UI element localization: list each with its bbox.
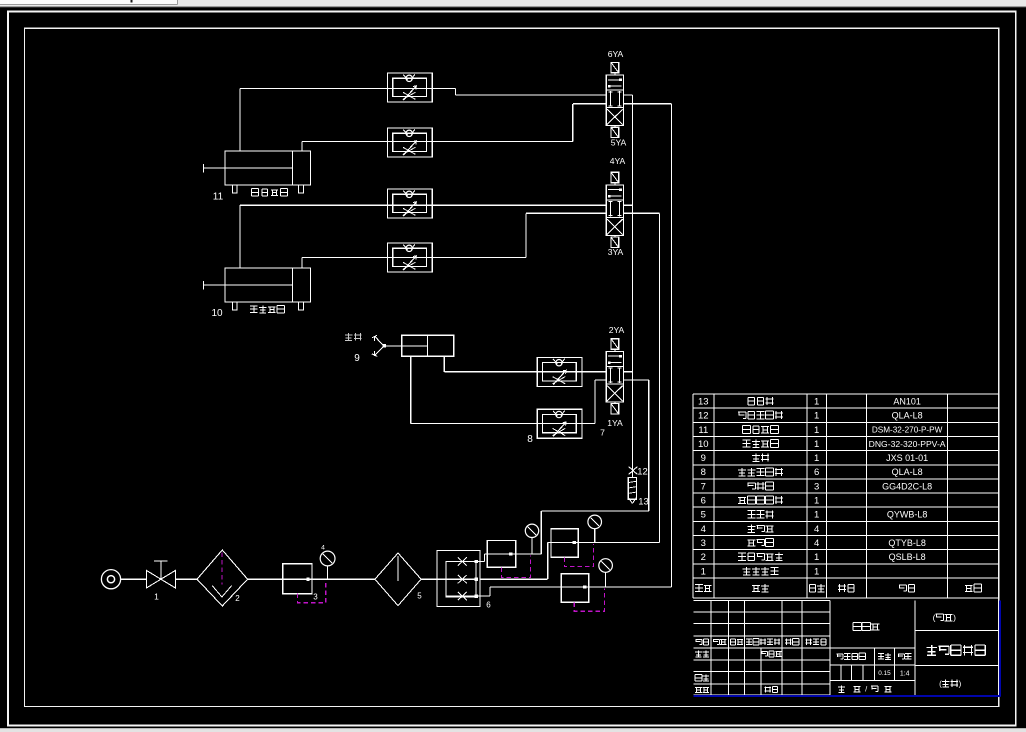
svg-text:1: 1 — [814, 496, 819, 507]
svg-text:8: 8 — [701, 467, 706, 478]
svg-text:6: 6 — [701, 496, 706, 507]
svg-text:5: 5 — [701, 510, 706, 521]
svg-text:QTYB-L8: QTYB-L8 — [888, 538, 926, 548]
svg-text:4: 4 — [701, 524, 706, 535]
svg-text:13: 13 — [698, 396, 709, 407]
svg-text:QLA-L8: QLA-L8 — [892, 467, 923, 477]
svg-text:QSLB-L8: QSLB-L8 — [889, 552, 926, 562]
svg-text:0.15: 0.15 — [878, 670, 891, 677]
svg-text:11: 11 — [213, 192, 224, 203]
svg-text:6YA: 6YA — [608, 49, 624, 59]
svg-text:DSM-32-270-P-PW: DSM-32-270-P-PW — [872, 426, 943, 435]
svg-text:1: 1 — [814, 425, 819, 436]
svg-text:10: 10 — [698, 439, 709, 450]
svg-text:1: 1 — [814, 552, 819, 563]
svg-text:(: ( — [933, 613, 936, 623]
svg-text:3: 3 — [814, 481, 819, 492]
svg-text:8: 8 — [527, 434, 533, 445]
svg-text:1:4: 1:4 — [900, 670, 910, 677]
svg-text:5YA: 5YA — [611, 138, 627, 148]
svg-text:(: ( — [939, 680, 942, 689]
svg-text:4: 4 — [321, 545, 325, 552]
svg-text:10: 10 — [211, 308, 223, 319]
svg-text:3YA: 3YA — [608, 247, 624, 257]
svg-text:1: 1 — [814, 439, 819, 450]
svg-text:2YA: 2YA — [609, 325, 625, 335]
svg-text:3: 3 — [701, 538, 706, 549]
svg-text:4: 4 — [814, 524, 819, 535]
svg-text:GG4D2C-L8: GG4D2C-L8 — [882, 481, 932, 491]
svg-text:1: 1 — [814, 453, 819, 464]
svg-text:6: 6 — [486, 601, 491, 610]
svg-text:1YA: 1YA — [607, 418, 623, 428]
svg-text:): ) — [959, 680, 962, 689]
svg-text:4: 4 — [814, 538, 819, 549]
svg-text:6: 6 — [814, 467, 819, 478]
svg-text:13: 13 — [638, 497, 649, 508]
svg-text:9: 9 — [354, 353, 360, 364]
svg-text:12: 12 — [698, 411, 709, 422]
svg-text:7: 7 — [701, 481, 706, 492]
svg-text:12: 12 — [637, 467, 648, 478]
svg-text:1: 1 — [154, 592, 159, 602]
svg-text:): ) — [953, 613, 956, 623]
svg-text:DNG-32-320-PPV-A: DNG-32-320-PPV-A — [869, 439, 946, 449]
svg-text:4YA: 4YA — [610, 156, 626, 166]
svg-text:11: 11 — [698, 425, 708, 436]
svg-text:1: 1 — [701, 566, 706, 577]
svg-text:2: 2 — [701, 552, 706, 563]
svg-text:9: 9 — [701, 453, 706, 464]
svg-text:7: 7 — [600, 427, 605, 437]
svg-text:1: 1 — [814, 411, 819, 422]
svg-text:2: 2 — [235, 594, 240, 603]
svg-text:JXS 01-01: JXS 01-01 — [886, 453, 928, 463]
svg-text:QYWB-L8: QYWB-L8 — [887, 510, 928, 520]
svg-text:1: 1 — [814, 396, 819, 407]
svg-text:AN101: AN101 — [893, 396, 921, 406]
svg-text:5: 5 — [417, 592, 422, 601]
svg-text:1: 1 — [814, 566, 819, 577]
svg-text:1: 1 — [814, 510, 819, 521]
svg-text:3: 3 — [313, 593, 318, 602]
svg-text:QLA-L8: QLA-L8 — [892, 411, 923, 421]
